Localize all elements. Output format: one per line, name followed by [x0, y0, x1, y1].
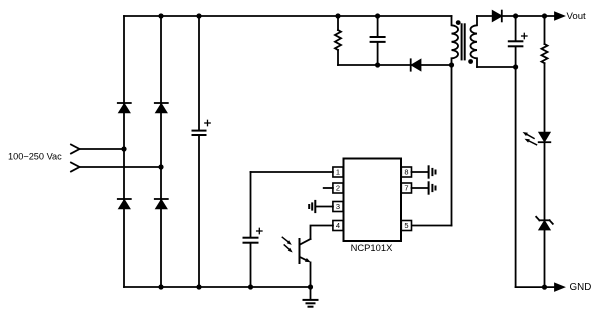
node junction output bus at resistor: [542, 13, 547, 18]
wire secondary return vertical: [515, 67, 517, 287]
optocoupler LED emission arrow 1: [523, 132, 534, 138]
wire pin 2 stub: [324, 187, 333, 189]
wire pin 8 to ground: [412, 171, 428, 173]
capacitor C1 bulk: [193, 131, 206, 135]
wire snubber cap branch top: [377, 16, 379, 36]
svg-text:8: 8: [404, 168, 408, 177]
transformer T1 secondary winding: [470, 16, 477, 67]
wire pin 7 to ground: [412, 187, 428, 189]
capacitor C1 plus sign: [205, 120, 210, 125]
wire feedback resistor branch: [544, 16, 546, 44]
diode D6 output rectifier: [493, 11, 502, 22]
svg-text:2: 2: [336, 184, 340, 193]
optocoupler Q1 collector: [300, 239, 311, 245]
node junction rail at bridge right leg: [158, 284, 163, 289]
wire pin5 horizontal: [412, 225, 452, 227]
svg-text:5: 5: [404, 221, 408, 230]
node junction top bus at snubber C: [375, 13, 380, 18]
IC U1 NCP101X body: [344, 159, 402, 242]
IC U1 pin 2 box: [333, 183, 343, 193]
wire bulk cap branch top: [198, 16, 200, 130]
node junction AC2 bridge: [158, 164, 163, 169]
optocoupler LED D7: [539, 133, 551, 143]
capacitor C3 output: [509, 41, 523, 46]
IC U1 pin 3 box: [333, 202, 343, 212]
node junction secondary return at cap: [513, 64, 518, 69]
wire snubber resistor branch: [337, 16, 339, 30]
svg-text:3: 3: [336, 202, 340, 211]
diode D4 bridge lower-right: [155, 199, 168, 208]
optocoupler Q1 received light arrow 2: [284, 245, 293, 253]
wire snubber resistor to bottom: [337, 50, 339, 65]
capacitor C3 plus sign: [522, 33, 527, 38]
node junction ground rail at zener: [542, 285, 547, 290]
transformer T1 primary winding: [452, 16, 459, 65]
svg-text:1: 1: [336, 168, 340, 177]
node junction rail at emitter: [308, 284, 313, 289]
optocoupler Q1 base bar: [299, 239, 301, 263]
wire output cap branch top: [515, 16, 517, 40]
IC U1 pin 7 box: [401, 183, 411, 193]
node Vout arrow: [555, 13, 564, 20]
node junction rail at Vcc cap: [248, 284, 253, 289]
node GND arrow: [555, 284, 564, 291]
wire snubber cap to bottom: [377, 43, 379, 65]
diode D5 snubber: [411, 59, 421, 70]
optocoupler LED emission arrow 2: [525, 139, 537, 145]
svg-text:NCP101X: NCP101X: [351, 242, 393, 253]
node junction rail at bulk cap: [196, 284, 201, 289]
node AC input arrow 1: [71, 145, 80, 154]
transformer T1 primary phase dot: [456, 20, 461, 25]
svg-text:Vout: Vout: [567, 11, 587, 22]
wire AC input line 2: [80, 166, 162, 168]
transformer T1 core: [462, 24, 465, 59]
wire emitter to rail: [310, 262, 312, 287]
ground symbol pin 3: [309, 201, 315, 212]
resistor R2 feedback: [542, 44, 548, 63]
wire AC input line 1: [80, 148, 125, 150]
capacitor C4 Vcc: [244, 238, 258, 243]
optocoupler Q1 emitter: [300, 257, 311, 262]
diode D3 bridge lower-left: [118, 199, 131, 208]
svg-text:GND: GND: [570, 282, 592, 293]
node junction snubber bottom at cap: [375, 62, 380, 67]
capacitor C4 plus sign: [257, 228, 262, 233]
diode D2 bridge upper-right: [155, 103, 168, 112]
wire resistor to LED: [544, 63, 546, 132]
diode D1 bridge upper-left: [118, 103, 131, 112]
zener diode Z1: [536, 217, 553, 230]
wire top bus primary: [124, 15, 452, 17]
wire pin 3 to ground: [316, 206, 333, 208]
wire secondary bottom: [477, 66, 516, 68]
optocoupler Q1 received light arrow 1: [282, 237, 292, 245]
node junction AC1 bridge: [121, 146, 126, 151]
ground symbol main: [304, 300, 318, 307]
node junction top bus at bulk cap: [196, 13, 201, 18]
IC U1 pin 4 box: [333, 221, 343, 231]
wire bulk cap branch bottom: [198, 136, 200, 287]
node junction top bus at snubber R: [335, 13, 340, 18]
wire output cap to secondary return: [515, 47, 517, 67]
wire output bus: [502, 15, 556, 17]
wire ground stem: [310, 287, 312, 299]
svg-text:4: 4: [336, 221, 340, 230]
wire bridge left leg: [123, 16, 125, 287]
node AC input arrow 2: [71, 163, 80, 172]
wire Vcc cap to rail: [250, 244, 252, 287]
node junction output bus at cap: [513, 13, 518, 18]
wire snubber bottom: [338, 64, 452, 66]
wire drain pin5 vertical: [451, 65, 453, 226]
IC U1 pin 8 box: [401, 167, 411, 177]
IC U1 pin 5 box: [401, 221, 411, 231]
wire primary bottom rail: [124, 286, 311, 288]
transformer T1 secondary phase dot: [468, 59, 473, 64]
node junction top bus at bridge right leg: [158, 13, 163, 18]
node junction snubber at primary: [449, 62, 454, 67]
wire pin 1 to Vcc cap: [251, 171, 333, 173]
wire secondary ground rail: [516, 286, 555, 288]
svg-text:100−250 Vac: 100−250 Vac: [8, 152, 62, 162]
resistor R1 snubber: [335, 30, 341, 50]
wire bridge right leg: [160, 16, 162, 287]
wire zener to ground rail: [544, 230, 546, 288]
ground symbol pin 7: [429, 182, 436, 193]
wire Vcc cap branch top: [250, 172, 252, 237]
IC U1 pin 1 box: [333, 167, 343, 177]
capacitor C2 snubber: [371, 37, 385, 42]
svg-text:7: 7: [404, 184, 408, 193]
wire secondary top to diode: [477, 15, 492, 17]
ground symbol pin 8: [429, 166, 436, 177]
wire LED to zener: [544, 142, 546, 219]
wire pin 4 to optocoupler: [311, 226, 333, 240]
